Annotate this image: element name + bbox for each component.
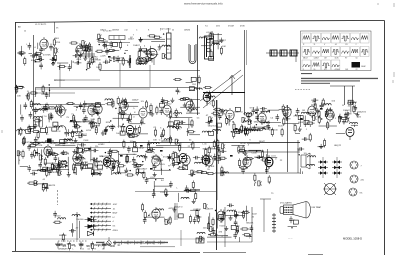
terminal strip row 5 xyxy=(90,220,111,223)
label blob xyxy=(70,120,73,122)
capacitor C71 xyxy=(90,158,97,162)
capacitor C101 xyxy=(201,155,205,162)
svg-text:L1 C2 R4 T1: L1 C2 R4 T1 xyxy=(35,24,47,26)
label blob xyxy=(160,150,163,152)
resistor R98 xyxy=(211,112,220,114)
resistor R121 xyxy=(314,102,316,111)
waveform W16 xyxy=(312,60,321,70)
resistor R161 xyxy=(147,142,149,151)
resistor R200 xyxy=(242,145,244,154)
tube V17 xyxy=(258,111,266,125)
wire xyxy=(318,146,325,148)
wire xyxy=(217,33,219,49)
capacitor C13 xyxy=(73,54,80,58)
tube base socket view 2 xyxy=(350,175,358,183)
svg-text:57: 57 xyxy=(151,53,154,55)
waveform W10 xyxy=(321,47,330,57)
resistor R96 xyxy=(246,127,248,136)
resistor R238 xyxy=(20,127,22,136)
flyback transformer box xyxy=(330,86,355,105)
capacitor C16 xyxy=(109,41,113,48)
capacitor C7 xyxy=(35,51,39,58)
resistor R63 xyxy=(95,126,97,135)
resistor R129 xyxy=(91,173,100,175)
ground G28 xyxy=(316,108,320,113)
terminal strip row 3 xyxy=(90,211,111,214)
capacitor C53 xyxy=(218,113,222,120)
tube V30 xyxy=(217,209,225,223)
capacitor C36 xyxy=(34,107,38,114)
wire xyxy=(125,49,128,51)
capacitor C30 xyxy=(83,101,87,108)
junction J6 xyxy=(124,53,125,54)
inductor L49 xyxy=(110,161,118,163)
junction J33 xyxy=(256,124,257,125)
waveform W2 xyxy=(312,33,321,43)
junction J37 xyxy=(96,158,97,159)
resistor R44 xyxy=(211,31,213,40)
resistor R117 xyxy=(318,115,320,124)
wire dashed xyxy=(295,89,310,91)
svg-text:www.freeservicemanuals.info: www.freeservicemanuals.info xyxy=(184,2,223,6)
wire xyxy=(38,118,40,128)
inductor L38 xyxy=(94,161,102,163)
resistor R166 xyxy=(173,158,175,167)
wire xyxy=(113,117,130,119)
svg-text:C: C xyxy=(170,165,172,167)
svg-text:5: 5 xyxy=(269,182,271,184)
capacitor C28 xyxy=(82,107,86,114)
resistor R230 xyxy=(240,228,249,230)
wire CRT feed xyxy=(263,199,265,232)
wire hsync box right xyxy=(297,140,299,173)
text smear xyxy=(160,242,168,243)
output transformer bracket xyxy=(301,153,310,169)
resistor R146 xyxy=(74,166,76,175)
svg-text:12AU7.0: 12AU7.0 xyxy=(174,206,183,209)
ground G50 xyxy=(319,144,323,149)
svg-text:470K100: 470K100 xyxy=(269,130,279,132)
wire xyxy=(239,237,241,242)
resistor R70 xyxy=(27,126,36,128)
yoke winding symbol 1-1 xyxy=(318,160,328,164)
capacitor C65 xyxy=(345,112,352,116)
svg-text:4722: 4722 xyxy=(167,104,173,106)
wire xyxy=(239,128,241,134)
svg-text:470K: 470K xyxy=(190,90,196,92)
wire xyxy=(267,109,279,111)
resistor R68 xyxy=(28,125,30,134)
capacitor C97 xyxy=(219,149,226,153)
resistor R45 xyxy=(209,32,211,41)
resistor R100 xyxy=(233,130,235,139)
resistor R38 xyxy=(97,38,106,40)
resistor R240 xyxy=(23,136,25,145)
wire xyxy=(58,157,60,175)
wire drop from border xyxy=(54,22,56,33)
capacitor C127 xyxy=(24,102,28,109)
wire xyxy=(103,50,113,52)
svg-text:55: 55 xyxy=(207,169,210,171)
wire xyxy=(154,185,172,187)
inductor L35 xyxy=(308,113,316,115)
component B28 xyxy=(77,148,82,152)
svg-text:6BQ74: 6BQ74 xyxy=(350,102,358,104)
wire xyxy=(252,126,265,128)
resistor R24 xyxy=(122,57,124,66)
resistor R221 xyxy=(142,203,144,212)
capacitor C108 xyxy=(152,191,156,198)
terminal strip row 1 xyxy=(90,203,111,206)
svg-text:R: R xyxy=(342,105,344,107)
inductor L2 xyxy=(207,96,215,98)
wire bold drop xyxy=(129,55,131,68)
wire rectifier feed xyxy=(76,212,78,240)
svg-text:50: 50 xyxy=(356,58,358,60)
resistor R92 xyxy=(176,122,178,131)
yoke winding symbol 1-2 xyxy=(318,166,328,170)
inductor L46 xyxy=(151,142,159,144)
svg-text:1M: 1M xyxy=(90,244,93,246)
junction J7 xyxy=(113,61,114,62)
svg-text:10K: 10K xyxy=(345,69,349,71)
waveform W15 xyxy=(302,60,311,70)
wire xyxy=(354,112,358,114)
tube V16 xyxy=(226,108,234,122)
capacitor C44 xyxy=(134,126,138,133)
junction J21 xyxy=(121,102,122,103)
capacitor C76 xyxy=(30,172,37,176)
resistor R35 xyxy=(153,36,162,38)
svg-text:.022: .022 xyxy=(357,116,362,118)
resistor R189 xyxy=(221,166,223,175)
svg-text:470KL: 470KL xyxy=(113,230,118,232)
wire xyxy=(186,112,200,114)
capacitor C84 xyxy=(34,137,38,144)
inductor L34 xyxy=(350,122,358,124)
tube (dark) V6 xyxy=(203,92,211,104)
capacitor C99 xyxy=(217,145,221,152)
potentiometer R170 xyxy=(134,162,138,167)
resistor R89 xyxy=(191,119,193,128)
resistor R58 xyxy=(73,114,75,123)
resistor R139 xyxy=(28,144,37,146)
ground G9 xyxy=(138,37,142,42)
resistor R69 xyxy=(66,102,75,104)
wire xyxy=(146,105,149,107)
wire xyxy=(253,183,255,186)
svg-text:10K: 10K xyxy=(96,67,100,69)
svg-text:10K: 10K xyxy=(17,96,21,98)
resistor R120 xyxy=(327,121,329,130)
wire xyxy=(207,236,232,238)
capacitor C104 xyxy=(255,155,262,159)
resistor R17 xyxy=(85,44,87,53)
component B24 xyxy=(298,116,303,120)
wire xyxy=(91,172,100,174)
capacitor C35 xyxy=(75,122,79,129)
capacitor C109 xyxy=(185,185,189,192)
wire long lower xyxy=(135,191,216,193)
wire xyxy=(153,169,171,171)
svg-text:0100: 0100 xyxy=(55,144,61,146)
inductor L60 xyxy=(308,156,316,158)
svg-text:12: 12 xyxy=(24,31,26,33)
potentiometer R210 xyxy=(34,181,38,186)
capacitor C60 xyxy=(220,109,224,116)
ground G10 xyxy=(139,37,143,42)
component B29 xyxy=(60,140,65,144)
pilot lamp xyxy=(107,237,111,245)
wire xyxy=(205,158,207,164)
resistor R8 xyxy=(212,99,214,108)
junction J45 xyxy=(179,166,180,167)
junction J14 xyxy=(35,61,36,62)
svg-text:12AU7: 12AU7 xyxy=(49,152,56,155)
component B34 xyxy=(183,166,188,170)
svg-text:5%.0: 5%.0 xyxy=(238,212,244,214)
svg-text:110K: 110K xyxy=(335,58,340,60)
resistor R242 xyxy=(22,150,24,159)
capacitor C121 xyxy=(227,204,234,208)
svg-text:12AU7: 12AU7 xyxy=(125,161,132,164)
wire vertical feed C2 xyxy=(246,30,248,65)
inductor L29 xyxy=(244,113,252,115)
potentiometer R136 xyxy=(51,164,55,169)
svg-text:2V: 2V xyxy=(76,227,79,229)
capacitor C128 xyxy=(297,147,304,151)
resistor R42 xyxy=(220,46,222,55)
junction J52 xyxy=(77,215,78,216)
resistor R142 xyxy=(31,142,40,144)
ground G1 xyxy=(19,51,23,56)
capacitor C61 xyxy=(276,114,280,121)
svg-text:.0: .0 xyxy=(34,47,37,49)
waveform W5 xyxy=(341,33,350,43)
wire band tick xyxy=(114,241,116,245)
svg-text:V2: V2 xyxy=(158,50,161,52)
svg-text:5%: 5% xyxy=(360,193,363,195)
svg-text:AB: AB xyxy=(18,26,21,29)
ground G23 xyxy=(150,111,154,116)
inductor L58 xyxy=(197,232,205,234)
inductor L53 xyxy=(181,197,189,199)
junction J38 xyxy=(73,172,74,173)
svg-text:10K: 10K xyxy=(312,102,316,104)
wire right feed xyxy=(295,50,297,62)
capacitor C103 xyxy=(241,167,245,174)
svg-text:12AU7.0: 12AU7.0 xyxy=(234,111,243,114)
resistor R157 xyxy=(123,140,125,149)
resistor R103 xyxy=(233,131,242,133)
svg-text:V5%: V5% xyxy=(214,116,219,118)
resistor R209 xyxy=(27,182,36,184)
svg-text:12AU722: 12AU722 xyxy=(357,111,367,114)
potentiometer R184 xyxy=(133,142,137,147)
resistor R54 xyxy=(37,130,39,139)
resistor R220 xyxy=(197,214,199,223)
ground G49 xyxy=(229,215,233,220)
capacitor C114 xyxy=(143,217,147,224)
wire bus 7 xyxy=(54,79,100,81)
svg-text:5: 5 xyxy=(160,128,162,130)
potentiometer R59 xyxy=(49,114,53,119)
svg-text:6BQ7K: 6BQ7K xyxy=(192,172,200,174)
resistor R167 xyxy=(125,174,134,176)
junction J25 xyxy=(115,108,116,109)
wire band tick xyxy=(140,241,142,245)
svg-text:— —: — — xyxy=(288,238,293,240)
wire xyxy=(244,126,246,134)
schematic page border right xyxy=(384,21,386,256)
resistor R134 xyxy=(47,152,56,154)
wire xyxy=(48,115,50,122)
svg-text:1M: 1M xyxy=(102,248,105,250)
resistor R84 xyxy=(130,135,139,137)
resistor R47 xyxy=(27,92,29,101)
capacitor C94 xyxy=(132,157,136,164)
wire xyxy=(265,154,267,172)
svg-text:10K: 10K xyxy=(82,159,86,161)
resistor R199 xyxy=(238,149,247,151)
svg-text:22L: 22L xyxy=(326,124,330,126)
capacitor C47 xyxy=(160,132,164,139)
svg-text:22: 22 xyxy=(293,124,296,126)
wire xyxy=(195,189,200,191)
inductor L14 xyxy=(32,104,40,106)
wire xyxy=(205,157,207,167)
resistor R150 xyxy=(39,169,48,171)
junction J31 xyxy=(232,121,233,122)
capacitor C58 xyxy=(252,107,256,114)
potentiometer R141 xyxy=(58,170,62,175)
junction J22 xyxy=(123,124,124,125)
tube V27 xyxy=(243,155,251,169)
capacitor C41 xyxy=(127,116,131,123)
capacitor C89 xyxy=(152,163,156,170)
capacitor C92 xyxy=(148,148,155,152)
resistor R244 xyxy=(268,175,270,184)
wire xyxy=(34,96,36,98)
svg-text:47K: 47K xyxy=(39,145,43,147)
junction J8 xyxy=(110,60,111,61)
capacitor C39 xyxy=(33,122,37,129)
tube V22 xyxy=(73,151,81,165)
svg-text:6BQ7: 6BQ7 xyxy=(139,147,145,149)
resistor R229 xyxy=(207,222,209,231)
resistor R64 xyxy=(75,120,77,129)
selenium rectifier 1 xyxy=(85,217,97,221)
junction J51 xyxy=(153,189,154,190)
capacitor C93 xyxy=(144,154,148,161)
resistor R10 xyxy=(16,86,25,88)
capacitor C83 xyxy=(84,162,88,169)
capacitor C17 xyxy=(116,56,120,63)
svg-text:CR: CR xyxy=(345,44,348,46)
junction J44 xyxy=(141,155,142,156)
terminal strip row 7 xyxy=(90,228,111,231)
wire xyxy=(138,165,140,173)
junction J50 xyxy=(155,179,156,180)
wire xyxy=(218,155,220,164)
tube V15 xyxy=(186,99,194,113)
inductor L24 xyxy=(233,129,241,131)
potentiometer R39 xyxy=(87,63,91,68)
wire xyxy=(151,211,158,213)
wire xyxy=(130,58,132,63)
resistor R48 xyxy=(42,85,44,94)
resistor R208 xyxy=(42,183,44,192)
wire xyxy=(241,125,243,133)
svg-text:45: 45 xyxy=(252,217,255,219)
resistor R165 xyxy=(126,155,128,164)
wire xyxy=(211,34,222,36)
potentiometer R245 xyxy=(258,181,262,186)
wire xyxy=(137,133,148,135)
ground G34 xyxy=(67,172,71,177)
resistor R211 xyxy=(165,188,167,197)
svg-text:VR: VR xyxy=(113,166,116,168)
filter block B2 xyxy=(280,50,287,56)
svg-text:71M: 71M xyxy=(83,162,87,164)
resistor R13 xyxy=(54,53,56,62)
svg-text:C: C xyxy=(250,132,252,134)
junction J32 xyxy=(236,131,237,132)
ground G24 xyxy=(298,127,302,132)
schematic page border bottom-left xyxy=(12,252,200,253)
wire diagonal sweep 2 xyxy=(203,75,243,108)
svg-text:V1: V1 xyxy=(56,28,59,30)
ground G6 xyxy=(145,59,149,64)
ground G7 xyxy=(149,56,153,61)
potentiometer R231 xyxy=(210,227,214,232)
potentiometer R194 xyxy=(221,171,225,176)
ground G18 xyxy=(121,98,125,103)
component B30 xyxy=(43,167,48,171)
svg-text:6BQ72: 6BQ72 xyxy=(334,145,342,147)
potentiometer R188 xyxy=(221,144,225,149)
schematic page border bottom-right tick xyxy=(308,254,323,256)
resistor R40 xyxy=(99,62,101,71)
svg-text:1002: 1002 xyxy=(116,133,122,135)
wire xyxy=(304,116,306,128)
svg-text:V: V xyxy=(20,89,22,91)
ground G4 xyxy=(83,56,87,61)
antenna mast xyxy=(229,75,235,95)
wire xyxy=(104,40,108,42)
svg-text:C: C xyxy=(136,30,138,32)
svg-text:12AU7: 12AU7 xyxy=(343,109,350,112)
svg-text:R7: R7 xyxy=(95,129,99,131)
svg-text:C1M: C1M xyxy=(188,106,193,108)
junction J43 xyxy=(112,170,113,171)
wire xyxy=(266,149,268,165)
svg-text:55%: 55% xyxy=(58,105,62,107)
inductor L25 xyxy=(261,111,269,113)
resistor R180 xyxy=(136,167,138,176)
inductor L45 xyxy=(137,156,145,158)
inductor L9 xyxy=(34,116,42,118)
ground G13 xyxy=(26,93,30,98)
waveform table box xyxy=(301,31,372,71)
inductor L27 xyxy=(245,129,253,131)
resistor R50 xyxy=(72,126,81,128)
capacitor C24 xyxy=(68,64,72,71)
tube V24 xyxy=(152,154,160,168)
waveform W13 xyxy=(351,47,360,57)
svg-text:.0: .0 xyxy=(133,116,136,118)
capacitor C29 xyxy=(42,106,46,113)
